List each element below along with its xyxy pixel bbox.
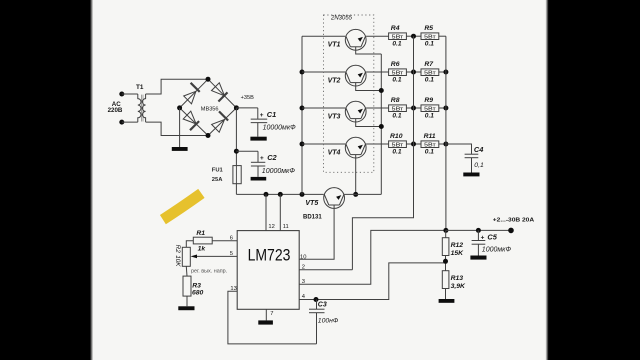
svg-text:R8: R8: [391, 97, 400, 104]
svg-text:VT2: VT2: [328, 77, 341, 84]
wire R1 left to R2 top: [186, 241, 193, 248]
svg-text:5Вт: 5Вт: [424, 70, 437, 76]
svg-text:+2...-30В 20А: +2...-30В 20А: [493, 218, 535, 224]
wire VT5 emitter to base bus: [345, 193, 382, 195]
white schematic background: [90, 0, 550, 360]
dotted box 2N3055 group: [324, 15, 374, 172]
svg-text:1k: 1k: [198, 246, 207, 253]
node rail pin12 junction: [264, 192, 269, 197]
wire C4 tap: [446, 144, 472, 154]
wire C2 tap to C2: [236, 150, 258, 152]
node bridge bottom vertex: [206, 133, 211, 138]
node AC input terminal top: [119, 92, 124, 97]
svg-text:5Вт: 5Вт: [392, 70, 405, 76]
wire R10 to R11: [406, 143, 421, 145]
svg-text:5Вт: 5Вт: [424, 34, 437, 40]
wire bridge left vertex to ground: [179, 108, 181, 147]
wire pin 5 to R2 wiper: [197, 255, 237, 257]
ground below C2: [251, 177, 267, 181]
svg-text:1000мкФ: 1000мкФ: [482, 246, 512, 253]
wire bus to R12: [445, 230, 447, 237]
ground below pin 7: [258, 320, 273, 324]
node R9 bus junction: [443, 106, 448, 111]
svg-text:10000мкФ: 10000мкФ: [262, 168, 296, 175]
resistor R3: [183, 276, 191, 296]
wire AC top terminal to primary: [122, 93, 138, 95]
resistor R13: [442, 271, 449, 289]
svg-text:R9: R9: [424, 97, 433, 104]
node output terminal: [508, 228, 514, 234]
node base bus VT2 junction: [379, 88, 384, 93]
resistor R1: [193, 237, 212, 244]
svg-text:0.1: 0.1: [392, 149, 401, 156]
wire R12 to divider node: [445, 256, 447, 271]
node divider junction: [443, 259, 448, 264]
wire VT4 emitter to R10: [366, 143, 389, 145]
capacitor C3: [309, 300, 325, 344]
wire pin 11 from rail: [279, 194, 281, 230]
capacitor C2: [251, 151, 265, 177]
wire R6 to R7: [406, 71, 421, 73]
label FU1 25A: [212, 167, 224, 182]
svg-text:VT4: VT4: [328, 149, 341, 156]
node R7 bus junction: [443, 70, 448, 75]
wire pin 4 to divider junction: [299, 263, 445, 300]
svg-text:0,1: 0,1: [474, 162, 484, 169]
node output bus R12 junction: [443, 228, 448, 233]
transistor VT3: [345, 101, 381, 126]
transformer T1 secondary winding: [142, 94, 145, 122]
wire output bus to terminal: [446, 229, 511, 231]
transformer T1 primary winding: [138, 94, 141, 122]
svg-text:2N3055: 2N3055: [330, 16, 353, 22]
node R10-R11 junction: [411, 142, 416, 147]
diode bridge upper-left: [180, 79, 208, 108]
svg-text:R3: R3: [192, 282, 201, 289]
wire VT3 collector: [302, 107, 345, 109]
svg-text:5Вт: 5Вт: [392, 34, 405, 40]
svg-text:VT1: VT1: [328, 42, 341, 49]
svg-text:11: 11: [283, 224, 289, 230]
svg-text:R6: R6: [391, 61, 400, 68]
wire pin 7 to ground: [265, 309, 267, 320]
resistor R8: [389, 105, 407, 112]
svg-text:12: 12: [268, 224, 274, 230]
ground below R13: [439, 299, 455, 303]
ground below R3: [178, 306, 194, 310]
wire output bus vertical: [445, 36, 447, 230]
wire secondary top to bridge top: [146, 79, 208, 94]
svg-text:5Вт: 5Вт: [392, 142, 405, 148]
wire R13 to ground: [445, 289, 447, 300]
ground below C5: [470, 256, 486, 260]
ground below C1: [250, 137, 266, 141]
svg-text:R1: R1: [196, 230, 205, 237]
svg-text:R7: R7: [424, 61, 434, 68]
wire VT4 collector: [302, 143, 345, 145]
svg-text:R10: R10: [390, 133, 403, 140]
node R11 bus junction: [443, 142, 448, 147]
wire R7 to output bus: [439, 71, 446, 73]
resistor R12: [442, 238, 449, 256]
wire R4 to R5: [406, 35, 421, 37]
diode bridge lower-right: [208, 108, 236, 136]
svg-text:+: +: [481, 235, 485, 242]
capacitor C4: [465, 154, 479, 172]
yellow marker swoosh: [163, 193, 202, 219]
svg-text:R11: R11: [424, 133, 436, 140]
wire AC bottom terminal to primary: [122, 121, 138, 123]
svg-text:5Вт: 5Вт: [424, 106, 437, 112]
svg-text:3,9K: 3,9K: [451, 283, 466, 290]
transistor VT2: [345, 65, 381, 90]
svg-text:R13: R13: [451, 275, 464, 282]
svg-text:FU1: FU1: [212, 167, 224, 173]
node collector bus VT3 junction: [300, 106, 305, 111]
svg-text:R12: R12: [451, 242, 464, 249]
svg-text:BD131: BD131: [303, 215, 322, 221]
wire R11 to output bus: [439, 143, 446, 145]
ground below bridge: [172, 147, 188, 151]
wire R8 to R9: [406, 107, 421, 109]
svg-text:7: 7: [270, 311, 273, 317]
svg-text:рег. вых. напр.: рег. вых. напр.: [191, 269, 227, 275]
svg-text:VT3: VT3: [328, 113, 341, 120]
transformer T1 core: [142, 95, 143, 122]
potentiometer R2: [182, 247, 190, 266]
wire base bus vertical: [380, 54, 382, 194]
wire pin 13 to C3 bottom: [228, 291, 317, 344]
fuse FU1: [233, 166, 241, 184]
node C2 tap junction: [234, 149, 239, 154]
node R6-R7 junction: [411, 70, 416, 75]
wire +35V rail after fuse to VT5 collector: [236, 193, 323, 195]
wire R3 bottom to ground: [186, 296, 188, 306]
svg-text:5Вт: 5Вт: [392, 106, 405, 112]
svg-text:0.1: 0.1: [392, 77, 401, 84]
capacitor C1: [251, 108, 268, 137]
node R4-R5 junction: [411, 34, 416, 39]
svg-text:LM723: LM723: [248, 247, 291, 265]
wire R2 bottom to R3 top: [185, 266, 188, 276]
svg-text:T1: T1: [136, 84, 144, 91]
node AC input terminal bottom: [119, 120, 124, 125]
node base bus VT3 junction: [379, 124, 384, 129]
diode bridge upper-right: [208, 79, 236, 108]
diode bridge lower-left: [180, 108, 208, 136]
transistor VT1: [345, 29, 381, 54]
svg-text:R5: R5: [424, 25, 433, 32]
svg-text:C5: C5: [487, 233, 497, 242]
svg-text:0.1: 0.1: [392, 113, 401, 120]
wire pin 2 to sense route: [299, 269, 352, 271]
ground below C4: [463, 173, 479, 177]
svg-text:R4: R4: [391, 25, 400, 32]
svg-text:VT5: VT5: [305, 200, 318, 207]
bridge rectifier MB356 diamond frame: [180, 79, 237, 135]
svg-text:0.1: 0.1: [425, 149, 434, 156]
svg-text:+35В: +35В: [241, 95, 254, 101]
node rail pin11 junction: [278, 192, 283, 197]
resistor R7: [421, 69, 439, 76]
svg-text:0.1: 0.1: [425, 113, 434, 120]
wire bridge plus column down to C2 tap and fuse: [235, 108, 237, 194]
node VT4 base junction on VT5 emitter line: [353, 192, 358, 197]
resistor R9: [421, 105, 439, 112]
node output bus C5 junction: [476, 228, 481, 233]
potentiometer R2 wiper arrow: [191, 255, 198, 259]
svg-text:10000мкФ: 10000мкФ: [263, 124, 297, 131]
node bridge right vertex: [234, 105, 239, 110]
wire bridge right vertex to C1 tap: [236, 107, 257, 109]
node bridge top vertex: [206, 77, 211, 82]
node collector bus VT2 junction: [300, 70, 305, 75]
svg-text:100нФ: 100нФ: [318, 317, 339, 324]
resistor R11: [421, 141, 439, 148]
wire sense column R4..R11 junctions down to pin2 route: [352, 36, 413, 270]
transistor VT4: [345, 137, 366, 194]
svg-text:5Вт: 5Вт: [424, 142, 437, 148]
wire VT2 emitter to R6: [366, 71, 389, 73]
svg-text:+: +: [260, 112, 264, 119]
svg-text:15K: 15K: [451, 250, 465, 257]
wire VT1 emitter to R4: [366, 35, 389, 37]
svg-text:10: 10: [300, 254, 306, 260]
resistor R5: [421, 33, 439, 40]
capacitor C5: [472, 230, 486, 255]
svg-text:680: 680: [192, 290, 204, 297]
wire pin 3 to output bus: [299, 230, 446, 284]
svg-text:+: +: [260, 155, 264, 162]
wire pin 12 from rail: [265, 194, 267, 230]
svg-text:220В: 220В: [108, 107, 123, 114]
wire VT1 collector: [302, 35, 345, 37]
node C3 junction on pin 4 wire: [314, 297, 319, 302]
svg-text:0.1: 0.1: [425, 77, 434, 84]
wire secondary bottom to bridge bottom: [146, 122, 208, 135]
svg-text:C3: C3: [318, 302, 327, 309]
node rail collector-bus junction: [300, 192, 305, 197]
svg-text:0.1: 0.1: [392, 41, 401, 48]
label AC 220V: [108, 101, 123, 114]
svg-text:10K: 10K: [174, 255, 181, 267]
resistor R10: [389, 141, 407, 148]
svg-text:R2: R2: [174, 245, 181, 254]
resistor R6: [389, 69, 407, 76]
wire pin 6 to R1: [212, 240, 237, 242]
node collector bus VT4 junction: [300, 142, 305, 147]
wire collector bus vertical: [301, 36, 303, 194]
node bridge left vertex: [177, 105, 182, 110]
wire R5 to output bus: [439, 35, 446, 37]
node R8-R9 junction: [411, 106, 416, 111]
op-amp regulator U1 LM723 box: [237, 231, 299, 310]
svg-text:MB356: MB356: [201, 107, 219, 113]
svg-text:0.1: 0.1: [425, 41, 434, 48]
wire VT3 emitter to R8: [366, 107, 389, 109]
svg-text:C4: C4: [474, 145, 483, 154]
resistor R4: [389, 33, 407, 40]
svg-text:25А: 25А: [212, 177, 223, 183]
svg-text:C1: C1: [267, 110, 276, 119]
transistor VT5: [299, 188, 344, 260]
wire VT2 collector: [302, 71, 345, 73]
wire R9 to output bus: [439, 107, 446, 109]
svg-text:C2: C2: [267, 153, 277, 162]
